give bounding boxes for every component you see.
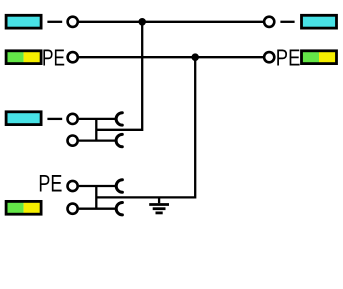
node junction row2 PE	[191, 53, 199, 61]
terminal marker rect2 cyan top-right	[302, 15, 337, 28]
terminal circle L1	[68, 17, 78, 27]
svg-text:PE: PE	[42, 46, 65, 71]
wire group3 lower	[79, 139, 116, 141]
terminal circle R2 PE	[264, 52, 274, 62]
contact socket G3b	[116, 134, 122, 146]
node junction row1	[138, 18, 146, 26]
wire row1 L-R	[79, 21, 263, 23]
terminal marker rect4 green-yellow right	[302, 51, 337, 64]
terminal marker rect3 green-yellow left	[6, 51, 41, 64]
wire group3 vertical link	[95, 119, 97, 141]
contact socket G4a	[116, 180, 122, 192]
wire group3 upper	[79, 118, 116, 120]
terminal marker rect6 green-yellow group4	[6, 201, 41, 214]
svg-text:PE: PE	[38, 170, 62, 197]
wire drop1 to cyan contact group	[96, 22, 142, 130]
terminal circle G3b	[68, 136, 78, 146]
wire group4 lower	[79, 208, 117, 210]
terminal marker rect1 cyan top-left	[6, 15, 41, 28]
terminal circle G4a	[68, 181, 78, 191]
terminal marker rect5 cyan group3	[6, 112, 41, 125]
ground symbol	[158, 197, 160, 203]
wire group4 upper	[79, 185, 117, 187]
dash row1 right	[280, 21, 294, 23]
terminal circle G4b	[68, 204, 78, 214]
dash row1 left	[47, 21, 62, 23]
svg-text:PE: PE	[276, 46, 301, 71]
dash group3	[47, 118, 62, 120]
terminal circle G3a	[68, 114, 78, 124]
contact socket G3a	[116, 113, 122, 125]
wire group4 vertical link	[95, 186, 97, 209]
wire row2 PE L-R	[79, 56, 263, 58]
contact socket G4b	[116, 203, 122, 215]
terminal circle L2 PE	[68, 52, 78, 62]
terminal circle R1	[264, 17, 274, 27]
wire drop2 PE to ground bus	[96, 57, 195, 197]
